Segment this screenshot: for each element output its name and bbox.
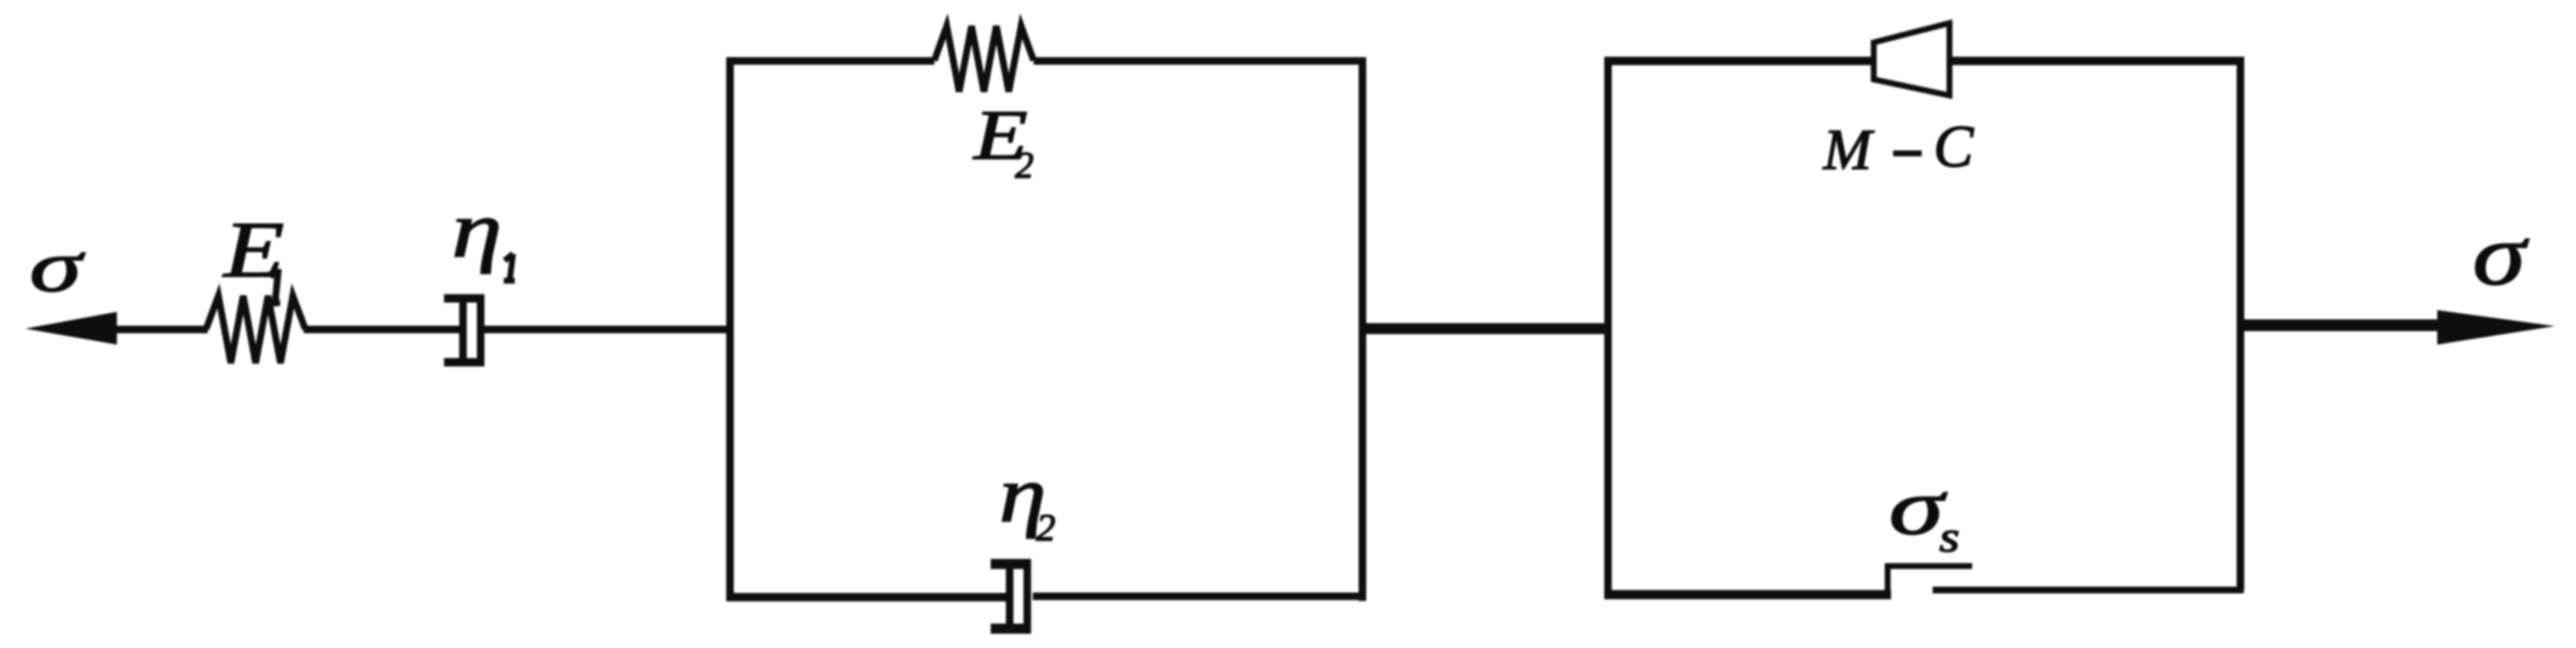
svg-text:s: s [1939,514,1960,561]
svg-text:σ: σ [1889,462,1947,551]
svg-text:η: η [452,185,502,274]
svg-text:M: M [1822,118,1875,182]
svg-text:σ: σ [29,226,86,308]
svg-text:C: C [1933,114,1975,180]
svg-text:2: 2 [1036,506,1055,549]
svg-text:σ: σ [2473,207,2530,303]
svg-text:2: 2 [1015,145,1034,186]
